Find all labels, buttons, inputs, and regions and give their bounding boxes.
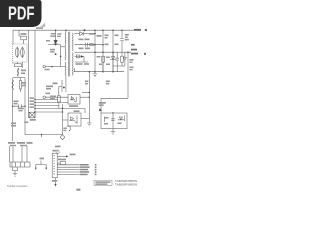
fuse F801 xyxy=(21,36,27,40)
capacitor C853 xyxy=(115,52,119,66)
wire: pc1 right xyxy=(80,96,89,98)
transformer T801 left winding xyxy=(64,33,67,75)
small cap symbol mid-bottom xyxy=(56,149,59,153)
wire: primary bottom to transistor xyxy=(65,75,67,80)
ground: secondary bus stub xyxy=(93,72,97,77)
resistor R854 xyxy=(121,56,124,62)
wire: secondary rail y52 xyxy=(84,51,131,53)
svg-text:Toshiba Corporation: Toshiba Corporation xyxy=(7,184,28,188)
AC inlet dashed box xyxy=(13,44,28,62)
photocoupler PC801 box xyxy=(68,95,80,104)
error amp internals xyxy=(105,113,125,129)
transformer right winding xyxy=(71,33,74,75)
resistor under transistor xyxy=(58,96,61,103)
wire: transformer secondary top to diode xyxy=(75,33,80,35)
wire: long left bus A xyxy=(27,30,29,118)
error amp box xyxy=(101,113,127,129)
text smudges: component labels xyxy=(8,27,134,191)
choke lower winding xyxy=(12,80,14,90)
AC plug prong L xyxy=(15,48,19,57)
wire: vertical x122 upper xyxy=(121,30,123,38)
wire: top rail drop left xyxy=(12,30,14,44)
wire: chassis line y134.6 xyxy=(25,135,63,138)
ground: error amp xyxy=(111,129,115,135)
wire: vertical into error amp xyxy=(100,98,102,113)
degauss plug feet xyxy=(12,167,17,171)
junction dots xyxy=(12,29,129,135)
wire: pc2 left xyxy=(63,119,69,121)
wire: vertical x122 lower xyxy=(121,41,123,52)
chassis diamond xyxy=(60,135,65,140)
svg-text:TA8859P/8855N: TA8859P/8855N xyxy=(115,183,137,187)
wire: vertical x89 xyxy=(88,72,90,123)
AC plug prong N xyxy=(21,48,25,57)
PDF badge xyxy=(0,0,42,27)
wire: transformer bottom right to bus xyxy=(74,68,76,72)
wire: vertical x95 xyxy=(94,30,96,71)
wire: connector gnd stem xyxy=(55,178,57,184)
wire: secondary tap y44.5 xyxy=(75,44,104,46)
wire: vertical x113 xyxy=(112,30,114,71)
title block box xyxy=(94,180,112,185)
ground: x89 xyxy=(87,123,91,126)
wire: stub y92.5 xyxy=(82,92,89,94)
wire: right AC line down xyxy=(24,78,26,135)
wire: vertical x128 feedback xyxy=(127,52,129,98)
wire: primary taps xyxy=(61,45,66,67)
diode D851 xyxy=(80,32,84,36)
wire: vertical x103 xyxy=(102,30,104,71)
capacitor on tap xyxy=(86,43,88,47)
PDF badge fold shadow xyxy=(40,23,45,27)
transformer core xyxy=(68,32,69,77)
wire: diode to cap xyxy=(83,33,95,35)
wire: B2 terminal xyxy=(43,96,45,98)
wire: left AC line down xyxy=(12,90,14,141)
capacitor across line xyxy=(13,104,25,108)
transistor Q801 xyxy=(59,80,66,95)
wire: opto row y112.5 xyxy=(35,111,63,113)
rail terminal labels xyxy=(131,29,147,55)
resistor R853 xyxy=(102,56,105,62)
wire: top +B rail xyxy=(13,29,138,31)
resistor R801 xyxy=(19,81,21,90)
relay box X xyxy=(29,112,35,118)
wire: opto row y108.5 xyxy=(35,109,85,114)
wire: pin bundle xyxy=(57,165,79,175)
resistor on tap xyxy=(90,44,93,46)
connector P801 box xyxy=(52,153,57,178)
wire: sub bus y66 xyxy=(113,66,125,72)
snubber diode D801 xyxy=(54,40,58,43)
secondary cluster diodes xyxy=(75,55,85,58)
capacitor C852 plates xyxy=(120,39,124,41)
wire: filter mid rail xyxy=(13,77,25,79)
fuse/thermistor box xyxy=(15,64,22,67)
wire: pc2 right to gnd line xyxy=(81,118,89,120)
wire: B1 terminal xyxy=(43,65,45,67)
photocoupler PC802 box xyxy=(68,113,81,126)
small box on pin2 xyxy=(60,162,66,165)
wire: secondary ground bus xyxy=(74,71,124,73)
earth symbol pair xyxy=(36,161,46,168)
wire: secondary tap to rail xyxy=(75,51,85,53)
wire: feedback horizontal y98 xyxy=(101,97,128,99)
pin bundle labels xyxy=(80,164,97,175)
wire: plug to filter xyxy=(13,62,22,68)
wire: ctrl rows xyxy=(35,100,68,106)
zener D853 xyxy=(110,52,116,71)
wire: control vertical x62.5 xyxy=(62,104,64,135)
wire: long left bus B xyxy=(34,30,36,118)
zener in error amp xyxy=(118,117,124,120)
ground: degauss xyxy=(13,171,17,177)
diode D854 xyxy=(123,52,126,66)
wire: primary top to rail xyxy=(56,30,66,40)
degauss connector box xyxy=(10,162,30,167)
wire: fuse drop xyxy=(18,30,20,36)
svg-text:PDF: PDF xyxy=(8,4,35,24)
transistor arrow at feedback xyxy=(99,108,102,111)
line filter choke upper xyxy=(17,68,19,76)
wire: pin top 5V xyxy=(57,155,66,157)
degauss wires down xyxy=(10,146,28,162)
hot gnd hook xyxy=(67,126,70,130)
